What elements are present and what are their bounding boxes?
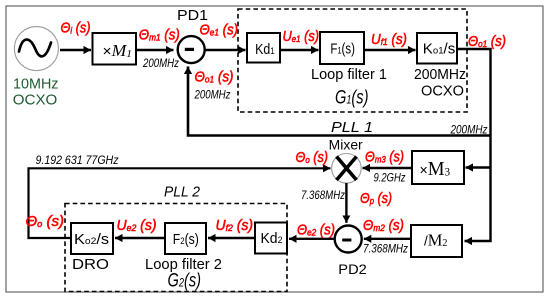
svg-text:PLL 1: PLL 1 bbox=[331, 119, 373, 136]
svg-text:OCXO: OCXO bbox=[13, 92, 57, 108]
svg-text:9.2GHz: 9.2GHz bbox=[374, 171, 406, 185]
svg-text:Θo1 (s): Θo1 (s) bbox=[468, 34, 506, 50]
svg-text:Θe2 (s): Θe2 (s) bbox=[297, 223, 335, 239]
svg-text:Uf2 (s): Uf2 (s) bbox=[216, 218, 254, 234]
svg-text:9.192 631 77GHz: 9.192 631 77GHz bbox=[36, 153, 119, 167]
svg-text:Uf1 (s): Uf1 (s) bbox=[371, 32, 407, 48]
svg-text:7.368MHz: 7.368MHz bbox=[301, 188, 345, 202]
svg-text:Θo (s): Θo (s) bbox=[26, 214, 65, 230]
svg-text:Θp (s): Θp (s) bbox=[360, 191, 392, 207]
svg-text:200MHz: 200MHz bbox=[450, 123, 488, 137]
svg-text:DRO: DRO bbox=[72, 257, 109, 273]
svg-text:OCXO: OCXO bbox=[421, 84, 464, 100]
svg-text:PD2: PD2 bbox=[338, 261, 367, 277]
svg-text:F1(s): F1(s) bbox=[330, 40, 355, 57]
svg-text:Ue2 (s): Ue2 (s) bbox=[117, 218, 157, 234]
svg-text:G2(s): G2(s) bbox=[168, 271, 202, 292]
svg-text:Θo (s): Θo (s) bbox=[296, 150, 329, 166]
svg-text:200MHz: 200MHz bbox=[142, 56, 179, 70]
svg-text:200MHz: 200MHz bbox=[194, 88, 231, 102]
svg-text:Θe1 (s): Θe1 (s) bbox=[200, 23, 239, 39]
svg-text:Mixer: Mixer bbox=[329, 137, 364, 152]
svg-text:10MHz: 10MHz bbox=[13, 77, 59, 93]
svg-text:Θi (s): Θi (s) bbox=[61, 20, 91, 36]
svg-text:F2(s): F2(s) bbox=[173, 231, 199, 248]
svg-text:Θo1 (s): Θo1 (s) bbox=[195, 69, 234, 85]
svg-text:PLL 2: PLL 2 bbox=[164, 184, 201, 201]
svg-text:G1(s): G1(s) bbox=[335, 87, 369, 109]
svg-text:200MHz: 200MHz bbox=[414, 67, 466, 83]
svg-text:Ue1 (s): Ue1 (s) bbox=[283, 29, 320, 45]
svg-text:Loop filter 1: Loop filter 1 bbox=[311, 67, 387, 83]
svg-text:7.368MHz: 7.368MHz bbox=[363, 242, 408, 256]
